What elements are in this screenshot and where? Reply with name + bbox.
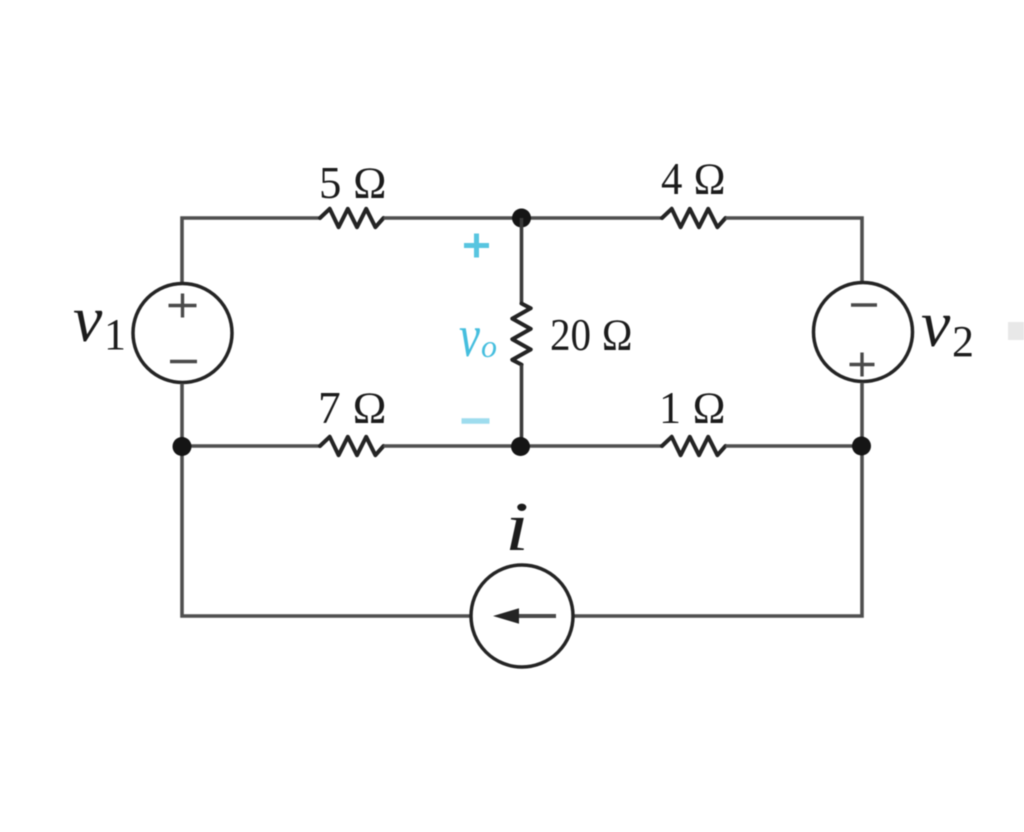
svg-text:20 Ω: 20 Ω bbox=[550, 310, 633, 360]
wire: top-right corner run (4-ohm across and down to v2 source top) bbox=[726, 218, 863, 282]
wire: left vertical from v1 bottom through node C to bottom-left corner and across to current source bbox=[182, 384, 472, 617]
node D junction dot (bottom right) bbox=[852, 437, 871, 456]
v2 internal minus sign bbox=[851, 303, 877, 306]
v1 internal minus sign bbox=[170, 360, 197, 363]
svg-text:v: v bbox=[921, 288, 951, 361]
node A junction dot (top middle) bbox=[512, 209, 531, 228]
v1 internal plus sign bbox=[169, 294, 197, 318]
current source i circle bbox=[471, 565, 573, 667]
wire: top rail middle segment (5-ohm to node A) bbox=[384, 216, 663, 220]
svg-text:i: i bbox=[505, 489, 529, 566]
wire: middle rail center segment (7-ohm to node B) bbox=[384, 444, 663, 448]
svg-text:1: 1 bbox=[104, 310, 126, 359]
resistor 7-ohm zigzag bbox=[320, 437, 384, 455]
resistor 4-ohm zigzag bbox=[662, 209, 726, 227]
resistor 20-ohm zigzag (vertical) bbox=[512, 304, 530, 365]
svg-text:v: v bbox=[73, 283, 103, 356]
wire: top-left corner run (v1 source top up and across to 5-ohm) bbox=[182, 218, 320, 283]
wire: middle rail right segment (1-ohm to node D) bbox=[726, 444, 863, 448]
voltage source v2 circle bbox=[814, 283, 913, 382]
svg-text:2: 2 bbox=[952, 317, 974, 366]
label: vo plus polarity mark (cyan) bbox=[464, 234, 489, 258]
resistor 1-ohm zigzag bbox=[662, 437, 726, 455]
v2 internal plus sign bbox=[850, 353, 875, 377]
wire: right vertical from v2 bottom through node D to bottom-right corner and across to current source bbox=[573, 383, 863, 617]
wire: middle vertical lower segment (20-ohm to node B) bbox=[520, 365, 524, 446]
node B junction dot (bottom middle) bbox=[511, 437, 530, 456]
current source arrow (pointing left) bbox=[512, 614, 556, 618]
resistor 5-ohm zigzag bbox=[320, 209, 384, 227]
wire: middle rail left segment (node C to 7-ohm) bbox=[182, 444, 320, 448]
svg-text:o: o bbox=[481, 328, 497, 364]
voltage source v1 circle bbox=[133, 284, 232, 383]
label: vo minus polarity mark (cyan) bbox=[462, 418, 490, 424]
svg-text:5 Ω: 5 Ω bbox=[319, 158, 387, 208]
wire: middle vertical upper segment (node A to 20-ohm) bbox=[520, 218, 524, 304]
stray faint mark at right edge bbox=[1008, 322, 1024, 340]
node C junction dot (bottom left) bbox=[173, 437, 192, 456]
svg-text:1 Ω: 1 Ω bbox=[659, 383, 726, 433]
svg-text:v: v bbox=[459, 303, 480, 369]
svg-text:7 Ω: 7 Ω bbox=[318, 383, 387, 433]
svg-text:4 Ω: 4 Ω bbox=[661, 154, 726, 204]
